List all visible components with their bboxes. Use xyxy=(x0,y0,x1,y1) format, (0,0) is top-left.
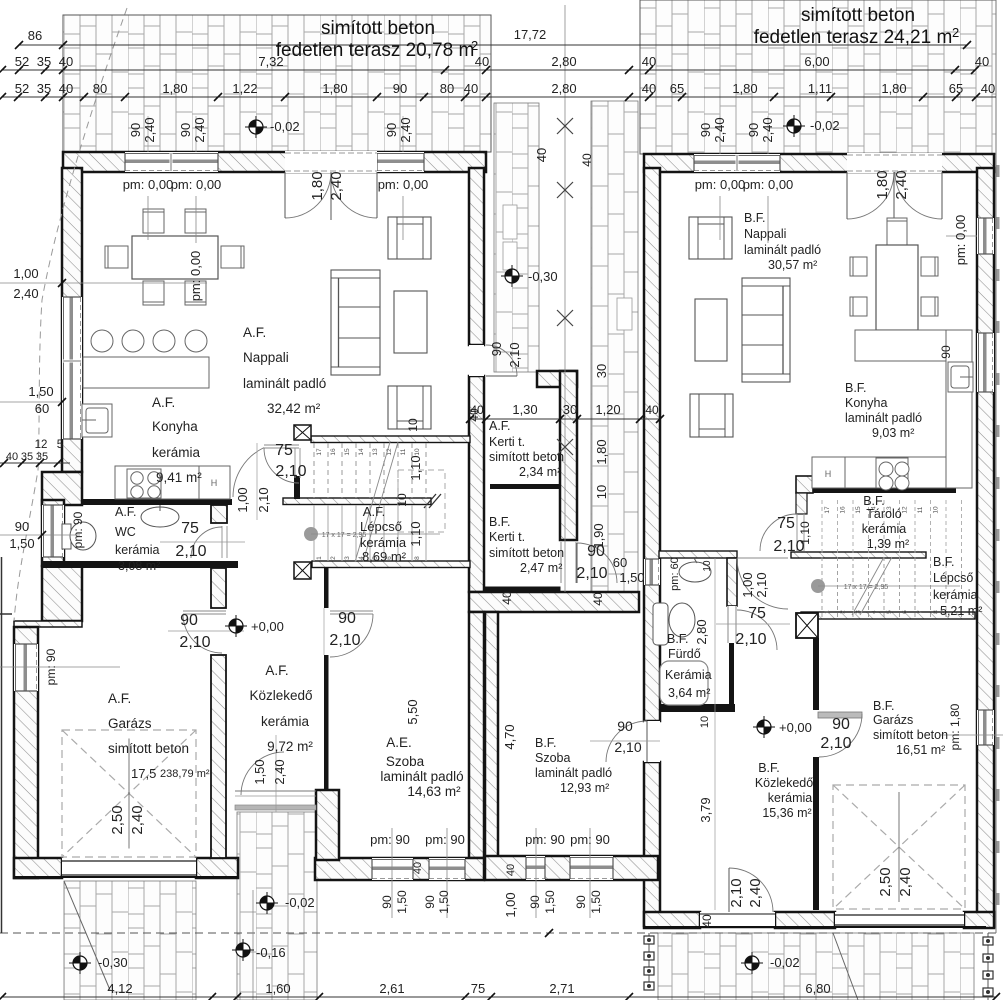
svg-text:1,50: 1,50 xyxy=(395,890,409,914)
svg-text:2,10: 2,10 xyxy=(175,543,206,560)
svg-text:pm: 0,00: pm: 0,00 xyxy=(188,251,203,302)
svg-text:1,10: 1,10 xyxy=(798,521,812,545)
svg-text:12: 12 xyxy=(902,506,909,514)
svg-text:simított beton: simított beton xyxy=(108,741,189,756)
svg-text:1,60: 1,60 xyxy=(265,981,290,996)
svg-text:75: 75 xyxy=(748,605,766,622)
svg-text:40: 40 xyxy=(500,591,514,605)
svg-text:-0,16: -0,16 xyxy=(256,945,286,960)
svg-text:13: 13 xyxy=(372,448,379,456)
svg-text:pm: 0,00: pm: 0,00 xyxy=(171,177,222,192)
svg-text:90: 90 xyxy=(393,81,407,96)
svg-text:2,40: 2,40 xyxy=(398,117,413,142)
svg-text:15,36 m²: 15,36 m² xyxy=(762,806,811,820)
svg-text:B.F.: B.F. xyxy=(667,632,689,646)
svg-text:1,11: 1,11 xyxy=(808,81,832,96)
svg-text:90: 90 xyxy=(587,543,605,560)
svg-text:60: 60 xyxy=(35,401,49,416)
svg-text:+0,00: +0,00 xyxy=(779,720,812,735)
svg-text:fedetlen terasz 20,78 m: fedetlen terasz 20,78 m xyxy=(276,40,475,61)
svg-text:86: 86 xyxy=(28,28,42,43)
svg-text:2,10: 2,10 xyxy=(179,634,210,651)
svg-text:B.F.: B.F. xyxy=(845,381,867,395)
svg-text:1,80: 1,80 xyxy=(162,81,187,96)
svg-text:kerámia: kerámia xyxy=(768,791,813,805)
svg-text:5,50: 5,50 xyxy=(405,699,420,724)
svg-text:40: 40 xyxy=(412,862,424,874)
svg-text:2,80: 2,80 xyxy=(551,81,576,96)
svg-text:simított beton: simított beton xyxy=(321,18,435,39)
svg-text:90: 90 xyxy=(338,610,356,627)
svg-text:kerámia: kerámia xyxy=(261,714,310,729)
svg-text:90: 90 xyxy=(384,123,399,137)
svg-text:40: 40 xyxy=(534,148,549,162)
svg-text:A.F.: A.F. xyxy=(243,325,266,340)
svg-text:10: 10 xyxy=(395,493,409,507)
svg-text:1,80: 1,80 xyxy=(874,170,891,199)
svg-text:2,10: 2,10 xyxy=(820,735,851,752)
svg-text:1: 1 xyxy=(316,556,323,560)
svg-text:Garázs: Garázs xyxy=(108,716,152,731)
svg-text:Nappali: Nappali xyxy=(744,227,786,241)
svg-text:2,40: 2,40 xyxy=(893,170,910,199)
svg-text:40: 40 xyxy=(470,403,484,417)
svg-text:40: 40 xyxy=(642,81,656,96)
svg-text:35: 35 xyxy=(37,54,51,69)
svg-text:1,30: 1,30 xyxy=(512,402,537,417)
svg-text:1,80: 1,80 xyxy=(322,81,347,96)
svg-text:H: H xyxy=(211,478,218,488)
svg-text:-0,30: -0,30 xyxy=(528,269,558,284)
svg-text:3,64 m²: 3,64 m² xyxy=(668,686,710,700)
svg-text:simított beton: simított beton xyxy=(873,728,948,742)
svg-text:3: 3 xyxy=(344,556,351,560)
svg-text:2,40: 2,40 xyxy=(129,805,146,834)
svg-text:10: 10 xyxy=(594,485,609,499)
svg-text:B.F.: B.F. xyxy=(863,494,885,508)
svg-text:90: 90 xyxy=(832,716,850,733)
svg-text:WC: WC xyxy=(115,525,136,539)
svg-text:5: 5 xyxy=(886,610,893,614)
svg-text:1,10: 1,10 xyxy=(408,521,423,546)
svg-text:pm: 0,00: pm: 0,00 xyxy=(743,177,794,192)
svg-text:-0,02: -0,02 xyxy=(270,119,300,134)
svg-text:1,00: 1,00 xyxy=(503,892,518,917)
svg-text:+0,00: +0,00 xyxy=(251,619,284,634)
svg-text:65: 65 xyxy=(949,81,963,96)
svg-text:2,40: 2,40 xyxy=(272,759,287,784)
svg-text:Fürdő: Fürdő xyxy=(668,647,701,661)
svg-text:40: 40 xyxy=(975,54,989,69)
svg-text:90: 90 xyxy=(489,342,504,356)
svg-text:2,10: 2,10 xyxy=(256,487,271,512)
svg-text:Kerámia: Kerámia xyxy=(665,668,712,682)
svg-text:2: 2 xyxy=(330,556,337,560)
svg-text:17: 17 xyxy=(824,506,831,514)
svg-text:1,00: 1,00 xyxy=(740,572,755,597)
svg-text:80: 80 xyxy=(440,81,454,96)
svg-text:2,40: 2,40 xyxy=(760,117,775,142)
svg-text:7: 7 xyxy=(917,610,924,614)
svg-text:32,42 m²: 32,42 m² xyxy=(267,401,321,416)
svg-text:2,71: 2,71 xyxy=(549,981,574,996)
svg-text:52: 52 xyxy=(15,81,29,96)
svg-text:pm: 90: pm: 90 xyxy=(525,832,565,847)
svg-text:-0,02: -0,02 xyxy=(810,118,840,133)
svg-text:pm: 0,00: pm: 0,00 xyxy=(378,177,429,192)
svg-text:2: 2 xyxy=(840,610,847,614)
svg-text:11: 11 xyxy=(917,506,924,513)
svg-text:2,80: 2,80 xyxy=(694,619,709,644)
svg-text:1,50: 1,50 xyxy=(543,890,557,914)
svg-text:2,40: 2,40 xyxy=(328,171,345,200)
svg-text:90: 90 xyxy=(15,519,29,534)
svg-text:1,50: 1,50 xyxy=(619,570,644,585)
svg-text:A.F.: A.F. xyxy=(489,419,511,433)
svg-text:90: 90 xyxy=(746,123,761,137)
svg-text:10: 10 xyxy=(699,716,711,728)
svg-text:pm: 0,00: pm: 0,00 xyxy=(695,177,746,192)
svg-text:kerámia: kerámia xyxy=(360,535,407,550)
svg-text:-0,30: -0,30 xyxy=(98,955,128,970)
svg-text:2,40: 2,40 xyxy=(142,117,157,142)
svg-text:8: 8 xyxy=(933,610,940,614)
svg-text:90: 90 xyxy=(698,123,713,137)
svg-text:14,63 m²: 14,63 m² xyxy=(407,784,461,799)
svg-text:40: 40 xyxy=(464,81,478,96)
svg-text:simított beton: simított beton xyxy=(489,546,564,560)
svg-text:40: 40 xyxy=(642,54,656,69)
svg-text:pm: 90: pm: 90 xyxy=(71,511,85,548)
svg-text:8: 8 xyxy=(414,556,421,560)
svg-text:90: 90 xyxy=(617,718,633,734)
svg-text:90: 90 xyxy=(574,895,588,909)
svg-text:10: 10 xyxy=(414,448,421,456)
svg-text:40: 40 xyxy=(6,451,18,463)
svg-text:laminált padló: laminált padló xyxy=(744,243,821,257)
svg-text:3,79: 3,79 xyxy=(698,797,713,822)
svg-text:4: 4 xyxy=(871,610,878,614)
svg-text:17,5: 17,5 xyxy=(131,766,156,781)
svg-text:75: 75 xyxy=(181,520,199,537)
svg-text:11: 11 xyxy=(400,448,407,455)
svg-text:2,10: 2,10 xyxy=(728,878,745,907)
svg-text:40: 40 xyxy=(981,81,995,96)
svg-text:6,80: 6,80 xyxy=(805,981,830,996)
svg-text:90: 90 xyxy=(180,612,198,629)
svg-text:B.F.: B.F. xyxy=(489,515,511,529)
svg-text:5: 5 xyxy=(57,439,63,451)
svg-text:fedetlen terasz 24,21 m: fedetlen terasz 24,21 m xyxy=(754,27,953,48)
svg-text:2,10: 2,10 xyxy=(614,739,641,755)
svg-text:B.F.: B.F. xyxy=(933,555,955,569)
svg-text:75: 75 xyxy=(777,515,795,532)
svg-text:10: 10 xyxy=(933,506,940,514)
svg-text:52: 52 xyxy=(15,54,29,69)
svg-text:1,00: 1,00 xyxy=(13,266,38,281)
svg-text:2,50: 2,50 xyxy=(877,867,894,896)
svg-text:1,80: 1,80 xyxy=(309,171,326,200)
svg-text:2,61: 2,61 xyxy=(379,981,404,996)
svg-text:35: 35 xyxy=(37,81,51,96)
svg-text:16,51 m²: 16,51 m² xyxy=(896,743,945,757)
svg-text:1,10: 1,10 xyxy=(408,455,423,480)
svg-text:Tároló: Tároló xyxy=(866,507,901,521)
svg-text:1,50: 1,50 xyxy=(28,384,53,399)
svg-text:9,03 m²: 9,03 m² xyxy=(872,426,914,440)
svg-text:4,12: 4,12 xyxy=(107,981,132,996)
svg-text:40: 40 xyxy=(475,54,489,69)
svg-text:B.F.: B.F. xyxy=(873,699,895,713)
svg-text:12,93 m²: 12,93 m² xyxy=(560,781,609,795)
svg-text:Kerti t.: Kerti t. xyxy=(489,530,525,544)
svg-text:40: 40 xyxy=(700,914,714,928)
svg-text:1: 1 xyxy=(824,610,831,614)
svg-text:1,39 m²: 1,39 m² xyxy=(867,537,909,551)
svg-text:1,80: 1,80 xyxy=(881,81,906,96)
svg-text:1,50: 1,50 xyxy=(589,890,603,914)
svg-text:2,40: 2,40 xyxy=(712,117,727,142)
svg-text:2,10: 2,10 xyxy=(754,572,769,597)
svg-text:1,20: 1,20 xyxy=(595,402,620,417)
svg-text:6: 6 xyxy=(902,610,909,614)
svg-text:15: 15 xyxy=(344,448,351,456)
svg-text:2,50: 2,50 xyxy=(109,805,126,834)
svg-text:2,10: 2,10 xyxy=(576,565,607,582)
svg-text:15: 15 xyxy=(855,506,862,514)
svg-text:1,50: 1,50 xyxy=(9,536,34,551)
svg-text:Lépcső: Lépcső xyxy=(933,571,973,585)
svg-text:simított beton: simított beton xyxy=(801,5,915,26)
svg-text:Szoba: Szoba xyxy=(535,751,570,765)
svg-text:laminált padló: laminált padló xyxy=(535,766,612,780)
svg-text:A.E.: A.E. xyxy=(386,735,412,750)
svg-text:40: 40 xyxy=(505,864,517,876)
svg-text:75: 75 xyxy=(275,442,293,459)
svg-text:75: 75 xyxy=(471,981,485,996)
svg-text:40: 40 xyxy=(645,403,659,417)
svg-text:2,10: 2,10 xyxy=(735,631,766,648)
svg-text:kerámia: kerámia xyxy=(933,588,978,602)
svg-text:16: 16 xyxy=(330,448,337,456)
svg-text:14: 14 xyxy=(358,448,365,456)
svg-text:A.F.: A.F. xyxy=(115,505,137,519)
svg-text:90: 90 xyxy=(128,123,143,137)
svg-text:2,47 m²: 2,47 m² xyxy=(520,561,562,575)
svg-text:30: 30 xyxy=(563,402,577,417)
svg-text:laminált padló: laminált padló xyxy=(243,376,326,391)
svg-text:2,10: 2,10 xyxy=(329,632,360,649)
svg-text:17: 17 xyxy=(316,448,323,456)
svg-text:3,08 m²: 3,08 m² xyxy=(118,559,160,573)
svg-text:pm: 90: pm: 90 xyxy=(570,832,610,847)
svg-text:laminált padló: laminált padló xyxy=(380,769,463,784)
svg-text:2,40: 2,40 xyxy=(192,117,207,142)
svg-text:2: 2 xyxy=(471,38,478,53)
svg-text:2,40: 2,40 xyxy=(13,286,38,301)
svg-text:pm: 0,00: pm: 0,00 xyxy=(123,177,174,192)
svg-text:12: 12 xyxy=(35,439,48,451)
svg-text:A.F.: A.F. xyxy=(363,504,385,519)
svg-text:H: H xyxy=(825,469,832,479)
svg-text:10: 10 xyxy=(406,418,420,432)
svg-text:1,00: 1,00 xyxy=(235,487,250,512)
svg-text:80: 80 xyxy=(93,81,107,96)
svg-text:A.F.: A.F. xyxy=(108,691,131,706)
svg-text:5,21 m²: 5,21 m² xyxy=(940,604,982,618)
svg-text:90: 90 xyxy=(939,345,953,359)
svg-text:Konyha: Konyha xyxy=(152,419,198,434)
svg-text:A.F.: A.F. xyxy=(152,395,175,410)
svg-text:Garázs: Garázs xyxy=(873,713,913,727)
svg-text:30,57 m²: 30,57 m² xyxy=(768,258,817,272)
svg-text:60: 60 xyxy=(613,555,627,570)
svg-text:pm: 60: pm: 60 xyxy=(669,557,681,591)
svg-text:Szoba: Szoba xyxy=(386,754,425,769)
svg-text:Nappali: Nappali xyxy=(243,350,289,365)
svg-text:6,00: 6,00 xyxy=(804,54,829,69)
svg-text:2,80: 2,80 xyxy=(551,54,576,69)
svg-text:1,80: 1,80 xyxy=(594,439,609,464)
svg-text:8,69 m²: 8,69 m² xyxy=(362,549,407,564)
svg-text:pm: 90: pm: 90 xyxy=(425,832,465,847)
svg-text:2,40: 2,40 xyxy=(747,878,764,907)
svg-text:2,10: 2,10 xyxy=(507,342,522,367)
svg-text:laminált padló: laminált padló xyxy=(845,411,922,425)
svg-text:90: 90 xyxy=(528,895,542,909)
svg-text:Közlekedő: Közlekedő xyxy=(755,776,813,790)
svg-text:1,50: 1,50 xyxy=(437,890,451,914)
svg-text:1,80: 1,80 xyxy=(732,81,757,96)
svg-text:9,72 m²: 9,72 m² xyxy=(267,739,313,754)
svg-text:40: 40 xyxy=(591,592,605,606)
svg-text:simított beton: simított beton xyxy=(489,450,564,464)
svg-text:A.F.: A.F. xyxy=(265,663,288,678)
svg-text:kerámia: kerámia xyxy=(152,445,201,460)
svg-text:65: 65 xyxy=(670,81,684,96)
svg-text:2,40: 2,40 xyxy=(897,867,914,896)
svg-text:9,41 m²: 9,41 m² xyxy=(156,470,202,485)
svg-text:238,79 m²: 238,79 m² xyxy=(160,768,210,780)
svg-text:Lépcső: Lépcső xyxy=(360,519,402,534)
svg-text:B.F.: B.F. xyxy=(758,761,780,775)
svg-text:kerámia: kerámia xyxy=(862,522,907,536)
svg-text:90: 90 xyxy=(423,895,437,909)
svg-text:pm: 1,80: pm: 1,80 xyxy=(948,703,962,750)
svg-text:2: 2 xyxy=(952,25,959,40)
svg-text:B.F.: B.F. xyxy=(535,736,557,750)
svg-text:1,50: 1,50 xyxy=(252,759,267,784)
svg-text:10: 10 xyxy=(702,560,713,572)
svg-text:40: 40 xyxy=(580,153,594,167)
svg-text:17,72: 17,72 xyxy=(514,27,547,42)
svg-text:40: 40 xyxy=(59,81,73,96)
svg-text:2,34 m²: 2,34 m² xyxy=(519,465,561,479)
svg-text:30: 30 xyxy=(594,364,609,378)
svg-text:2,10: 2,10 xyxy=(275,463,306,480)
svg-text:90: 90 xyxy=(380,895,394,909)
svg-text:pm: 90: pm: 90 xyxy=(44,648,58,685)
svg-text:16: 16 xyxy=(840,506,847,514)
svg-text:-0,02: -0,02 xyxy=(770,955,800,970)
svg-text:4,70: 4,70 xyxy=(502,724,517,749)
svg-text:pm: 90: pm: 90 xyxy=(370,832,410,847)
svg-text:-0,02: -0,02 xyxy=(285,895,315,910)
svg-text:Közlekedő: Közlekedő xyxy=(249,688,312,703)
svg-text:Kerti t.: Kerti t. xyxy=(489,435,525,449)
svg-text:40: 40 xyxy=(59,54,73,69)
svg-text:1,22: 1,22 xyxy=(232,81,257,96)
svg-text:Konyha: Konyha xyxy=(845,396,887,410)
svg-text:kerámia: kerámia xyxy=(115,543,160,557)
svg-text:B.F.: B.F. xyxy=(744,211,766,225)
svg-text:pm: 0,00: pm: 0,00 xyxy=(953,215,968,266)
svg-text:90: 90 xyxy=(178,123,193,137)
